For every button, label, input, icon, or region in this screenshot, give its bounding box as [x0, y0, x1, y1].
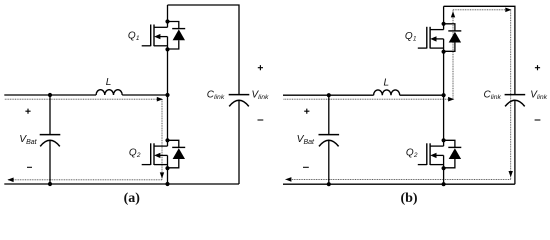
- svg-text:Q1: Q1: [405, 31, 417, 43]
- svg-text:VBat: VBat: [19, 134, 37, 146]
- svg-text:Clink: Clink: [484, 89, 502, 101]
- svg-text:L: L: [106, 77, 112, 88]
- svg-text:Clink: Clink: [207, 89, 225, 101]
- svg-text:L: L: [384, 77, 390, 88]
- svg-text:Q1: Q1: [128, 31, 140, 43]
- svg-text:VBat: VBat: [297, 134, 315, 146]
- svg-text:Vlink: Vlink: [252, 89, 269, 101]
- svg-text:(a): (a): [124, 191, 141, 206]
- svg-text:Q2: Q2: [406, 147, 418, 159]
- svg-text:Vlink: Vlink: [530, 89, 547, 101]
- svg-text:Q2: Q2: [129, 147, 141, 159]
- svg-text:(b): (b): [400, 191, 417, 206]
